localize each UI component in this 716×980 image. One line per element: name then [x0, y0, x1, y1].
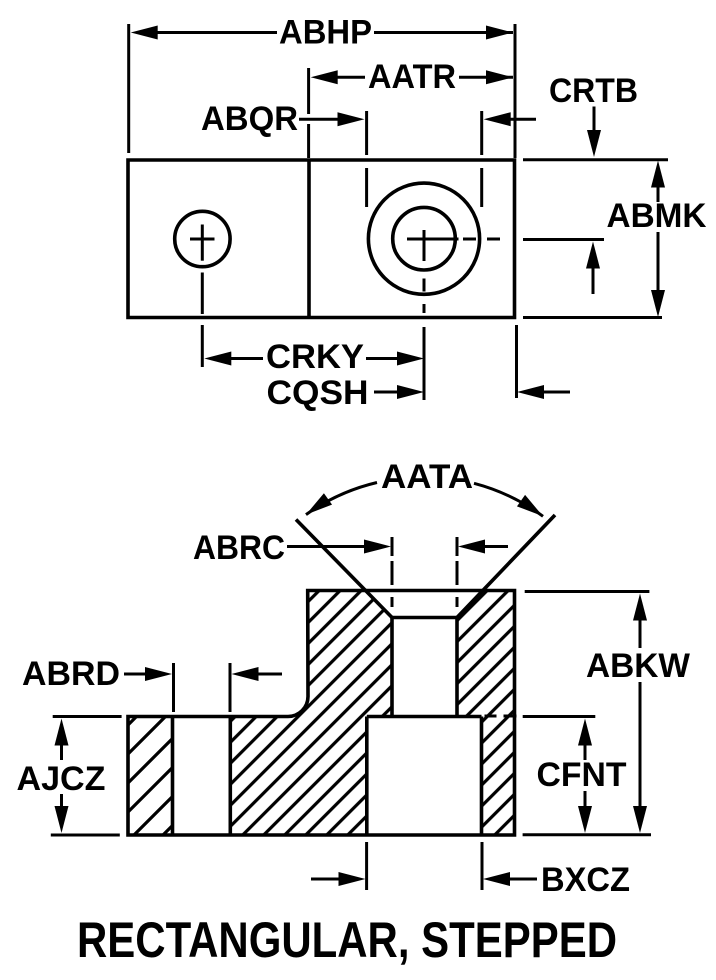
top view part outline	[128, 160, 515, 318]
svg-text:AATR: AATR	[368, 58, 456, 96]
svg-text:ABHP: ABHP	[279, 14, 372, 52]
bottom edge extension line right	[523, 316, 662, 319]
countersink chamfer right line	[457, 515, 555, 618]
section view hatch left chunk	[128, 717, 173, 836]
ABRD dimension arrows	[124, 667, 282, 681]
divider extension line	[307, 68, 310, 158]
title RECTANGULAR, STEPPED	[77, 912, 617, 968]
label ABKW	[586, 647, 691, 685]
ABHP dimension line	[131, 26, 513, 40]
svg-text:ABMK: ABMK	[607, 197, 707, 235]
ABRD extension lines	[174, 663, 231, 712]
cavity top edge	[367, 715, 482, 719]
ABMK dimension line	[651, 161, 665, 318]
svg-text:BXCZ: BXCZ	[541, 861, 630, 899]
counterbore inner circle	[393, 207, 456, 270]
bottom extension line right	[523, 833, 651, 836]
big hole crosshair	[407, 230, 459, 261]
AJCZ top extension line	[53, 715, 122, 718]
big hole vertical centerline dashes	[423, 279, 426, 401]
label ABMK	[607, 197, 707, 235]
counterbore outer circle	[368, 183, 479, 294]
section view part outline	[128, 591, 515, 836]
top view divider line	[307, 160, 311, 318]
label CQSH	[267, 374, 369, 412]
small hole centerline down	[201, 273, 204, 368]
CFNT dimension line	[578, 719, 592, 834]
small hole circle	[175, 211, 230, 266]
section view hatch right chunk	[457, 591, 515, 836]
svg-text:ABRD: ABRD	[22, 655, 120, 693]
label CFNT	[537, 756, 627, 794]
ABQR dimension arrows	[299, 112, 536, 126]
svg-text:CRKY: CRKY	[266, 338, 364, 376]
svg-text:AJCZ: AJCZ	[17, 760, 106, 798]
up arrow at centerline	[586, 242, 600, 295]
ABKW top extension line	[525, 590, 650, 593]
top edge extension line right	[523, 158, 668, 161]
section view hatch middle chunk	[230, 591, 392, 836]
AATA arc with arrows	[302, 483, 547, 522]
hole left wall	[390, 618, 394, 717]
countersink chamfer left line	[296, 520, 392, 618]
countersink bottom edge	[392, 616, 457, 620]
AJCZ dimension line	[55, 719, 69, 834]
right edge extension line	[514, 24, 517, 158]
big hole horizontal centerline dashes	[463, 238, 500, 241]
ABRC dimension arrows	[287, 540, 508, 554]
AJCZ bottom extension line	[51, 834, 120, 837]
svg-text:ABRC: ABRC	[193, 529, 285, 567]
CQSH right extension line	[515, 325, 518, 398]
ABKW dimension line	[633, 594, 647, 834]
BXCZ extension lines	[367, 842, 482, 890]
CRTB leader arrow down	[587, 107, 601, 158]
svg-text:RECTANGULAR, STEPPED: RECTANGULAR, STEPPED	[77, 912, 617, 968]
CFNT top extension line with dashes	[485, 715, 596, 719]
ABQR extension ticks	[367, 111, 482, 207]
svg-text:ABQR: ABQR	[201, 100, 298, 138]
label AJCZ	[17, 760, 106, 798]
cavity left wall	[365, 717, 369, 836]
AATR dimension line	[311, 70, 513, 84]
BXCZ dimension arrows	[311, 872, 537, 886]
hole right wall	[455, 618, 459, 717]
label CRKY	[266, 338, 364, 376]
svg-text:AATA: AATA	[381, 458, 473, 496]
svg-text:CRTB: CRTB	[549, 72, 638, 110]
ABHP left extension line	[127, 24, 130, 153]
svg-text:ABKW: ABKW	[586, 647, 691, 685]
label ABQR	[201, 100, 298, 138]
slot right wall	[229, 717, 233, 836]
slot left wall	[171, 717, 175, 836]
label ABRD	[22, 655, 120, 693]
centerline extension right	[523, 238, 604, 241]
label BXCZ	[541, 861, 630, 899]
CQSH dimension arrows	[374, 385, 570, 399]
label AATA	[381, 458, 473, 496]
ABRC extension dashes	[392, 537, 457, 607]
label ABHP	[279, 14, 372, 52]
svg-text:CFNT: CFNT	[537, 756, 627, 794]
cavity right wall	[480, 717, 484, 836]
label CRTB	[549, 72, 638, 110]
label AATR	[368, 58, 456, 96]
small hole crosshair	[190, 225, 215, 261]
CRKY dimension line	[204, 352, 424, 366]
svg-text:CQSH: CQSH	[267, 374, 369, 412]
label ABRC	[193, 529, 285, 567]
